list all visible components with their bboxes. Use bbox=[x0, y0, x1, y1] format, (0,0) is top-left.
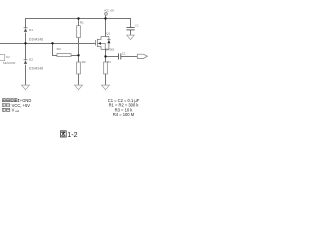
wire C1 to output port bbox=[121, 56, 138, 58]
svg-text:R3: R3 bbox=[107, 60, 111, 64]
resistor R1 bbox=[77, 26, 81, 38]
diode D2 bbox=[24, 60, 28, 64]
svg-text:1-2: 1-2 bbox=[67, 132, 77, 139]
wire input node to D2 bbox=[25, 43, 27, 59]
transistor Q1 substrate arrow bbox=[98, 42, 101, 45]
wire D1 anode to input node bbox=[25, 33, 27, 44]
transistor Q1 2N7002 bbox=[96, 37, 111, 50]
node output junction at Q1 source bbox=[104, 55, 106, 57]
wire VCC stem bbox=[105, 15, 107, 18]
ground below R2 bbox=[75, 85, 83, 90]
caption figure 1-2 bbox=[60, 131, 66, 137]
svg-text:R2: R2 bbox=[82, 60, 86, 64]
note line 1 shield wire +GND bbox=[2, 99, 19, 102]
svg-text:D2: D2 bbox=[29, 58, 33, 62]
svg-text:C1: C1 bbox=[122, 52, 126, 56]
svg-text:R4: R4 bbox=[57, 47, 61, 51]
capacitor C1 bbox=[119, 53, 121, 59]
ground below D2 bbox=[22, 85, 30, 90]
ground below R3 bbox=[102, 85, 110, 90]
note line 3 yellow wire Vout bbox=[2, 108, 9, 111]
svg-text:D1: D1 bbox=[29, 28, 33, 32]
resistor R2 bbox=[77, 62, 81, 74]
wire output node to R3 bbox=[105, 57, 107, 63]
svg-text:: V: : V bbox=[9, 108, 14, 113]
wire R1 top stub bbox=[78, 19, 80, 26]
node R4 branch junction bbox=[51, 42, 53, 44]
svg-text:out: out bbox=[15, 109, 19, 113]
wire C2 to ground bbox=[130, 30, 132, 36]
capacitor C2 bbox=[126, 28, 134, 30]
power VCC +5V bbox=[105, 13, 108, 16]
connector O2 sensor box bbox=[0, 55, 5, 61]
svg-text:D1N4148: D1N4148 bbox=[29, 38, 43, 42]
svg-text:R4 = 100 M: R4 = 100 M bbox=[113, 112, 135, 117]
svg-text:D1N4148: D1N4148 bbox=[29, 66, 43, 70]
wire output node to C1 bbox=[106, 56, 119, 58]
wire top rail VCC bbox=[25, 18, 131, 20]
wire R3 bottom to ground bbox=[105, 74, 107, 85]
wire R2 bottom to ground bbox=[78, 74, 80, 85]
svg-text:O2: O2 bbox=[6, 55, 10, 59]
svg-text:R1: R1 bbox=[80, 21, 84, 25]
wire R1 bottom through node X to R2 bbox=[78, 38, 80, 62]
node input junction with D1 D2 bbox=[24, 42, 26, 44]
resistor R4 bbox=[57, 54, 71, 57]
node X junction R1 R2 R4 bbox=[77, 54, 79, 56]
svg-text:SENSOR: SENSOR bbox=[3, 61, 17, 65]
wire D2 cathode to ground bbox=[25, 65, 27, 86]
wire VCC rail to Q1 drain bbox=[105, 19, 107, 37]
resistor R3 bbox=[104, 62, 108, 74]
wire input net horizontal bbox=[0, 43, 95, 45]
svg-text:2N7002: 2N7002 bbox=[105, 48, 115, 52]
note line 2 red wire VCC +5V bbox=[2, 104, 9, 107]
wire R4 left stub bbox=[53, 43, 58, 56]
diode D1 bbox=[24, 28, 28, 32]
wire R4 right to node X bbox=[71, 55, 79, 57]
node VCC on rail bbox=[104, 17, 106, 19]
node R1 top on rail bbox=[77, 17, 79, 19]
svg-text:VCC +5V: VCC +5V bbox=[104, 10, 114, 13]
output port Vout off-page connector bbox=[137, 54, 147, 58]
ground below C2 bbox=[127, 35, 135, 40]
wire left clamp column top bbox=[25, 19, 27, 28]
wire rail corner to C2 bbox=[130, 19, 132, 28]
svg-text:Q1: Q1 bbox=[106, 31, 110, 35]
svg-text:C2: C2 bbox=[135, 24, 139, 28]
transistor Q1 body diode arrow bbox=[107, 40, 110, 43]
wire Q1 source to output node bbox=[105, 49, 107, 56]
